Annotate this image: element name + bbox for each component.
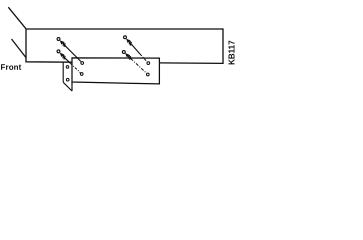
screw S4 arrow and threads [124,52,133,61]
bracket plate [72,58,159,84]
svg-text:Front: Front [0,63,21,72]
plate hole upper-right [147,62,150,65]
screw S4 head [122,51,125,54]
screw S1 head [57,38,60,41]
bracket fold edge (plate left extension) [71,82,73,91]
screw S3 alignment dash line [131,44,140,54]
screw S3 head [124,36,127,39]
beam front face [26,29,223,63]
flange hole upper [66,66,69,69]
svg-text:KB117: KB117 [227,40,236,65]
flange hole lower [66,78,69,81]
screw S4 alignment dash line [131,59,147,74]
bracket flange left edge [62,62,64,82]
screw S2 alignment dash line [65,58,70,63]
plate hole lower-left [80,73,83,76]
screw S2 arrow and threads [58,51,67,60]
bracket flange bottom edge [63,82,72,91]
beam bottom-left receding edge [12,39,27,58]
beam top-left receding edge [8,7,26,29]
plate hole upper-left [81,62,84,65]
screw S1 alignment dash line [65,46,81,62]
screw S2 head [57,50,60,53]
plate hole lower-right [146,73,149,76]
screw S1 arrow and threads [58,39,67,48]
screw S3 arrow and threads [125,37,134,46]
